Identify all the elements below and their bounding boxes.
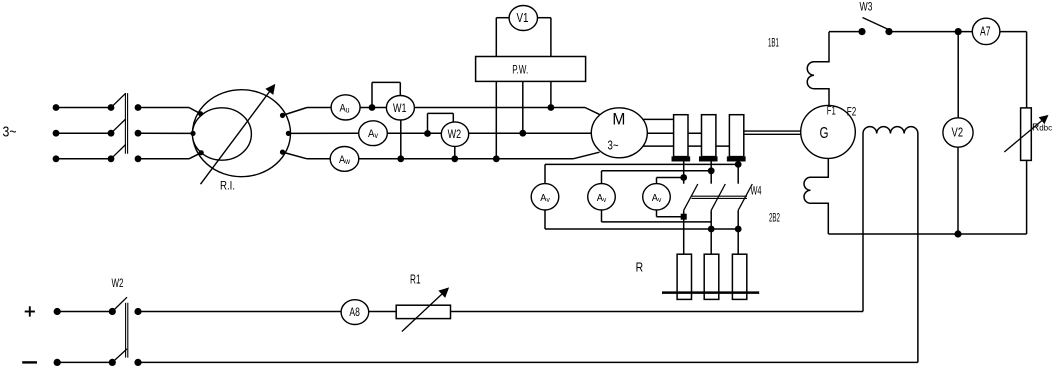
svg-text:F2: F2 — [847, 107, 857, 119]
svg-text:P.W.: P.W. — [512, 62, 528, 76]
svg-text:R: R — [636, 261, 644, 275]
svg-text:W4: W4 — [751, 184, 762, 198]
svg-text:V1: V1 — [517, 11, 529, 25]
svg-text:R.I.: R.I. — [220, 179, 235, 193]
svg-text:A7: A7 — [980, 24, 991, 38]
svg-text:G: G — [820, 125, 829, 142]
svg-text:Rdbc: Rdbc — [1032, 123, 1052, 134]
svg-text:F1: F1 — [827, 106, 836, 118]
svg-text:3~: 3~ — [608, 139, 619, 153]
svg-text:W2: W2 — [112, 276, 124, 290]
svg-text:V2: V2 — [952, 126, 964, 140]
svg-text:W1: W1 — [393, 103, 407, 115]
svg-text:2B2: 2B2 — [769, 211, 780, 225]
svg-text:3~: 3~ — [3, 124, 17, 141]
svg-text:R1: R1 — [410, 273, 421, 287]
svg-text:W2: W2 — [448, 129, 462, 141]
svg-text:A8: A8 — [349, 305, 360, 319]
svg-text:W3: W3 — [860, 0, 873, 14]
svg-text:M: M — [612, 110, 625, 129]
svg-text:1B1: 1B1 — [768, 36, 779, 50]
